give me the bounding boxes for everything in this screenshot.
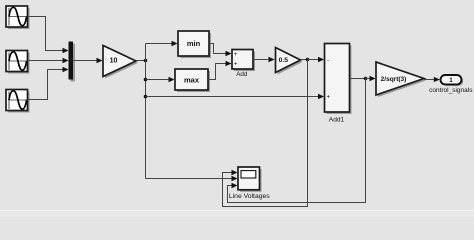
- svg-text:Add1: Add1: [329, 116, 345, 123]
- scope Line Voltages: [229, 167, 270, 200]
- wire to scope input 2: [146, 176, 238, 181]
- wire mux to gain 10: [73, 58, 103, 63]
- junction node gain 0.5 output: [306, 58, 310, 62]
- svg-text:+: +: [234, 62, 238, 68]
- adder Add1: [325, 44, 352, 124]
- svg-text:Line Voltages: Line Voltages: [229, 193, 270, 200]
- wire sine2 to mux: [28, 58, 69, 63]
- gain 0.5: [276, 48, 303, 75]
- wire feedback gain 0.5 to scope input 1: [223, 60, 308, 207]
- block min: [178, 31, 211, 58]
- junction node to Add1 plus: [144, 95, 148, 99]
- sine wave source 2: [6, 51, 30, 74]
- wire gain 2/sqrt(3) to outport: [424, 77, 440, 82]
- svg-text:10: 10: [110, 57, 118, 64]
- svg-text:2/sqrt(3): 2/sqrt(3): [381, 76, 407, 83]
- wire Add to gain 0.5: [253, 57, 275, 62]
- wire gain10 to junction: [136, 60, 146, 62]
- wire feedback Add1 to scope input 3: [228, 79, 366, 203]
- window bottom edge band: [0, 211, 474, 217]
- adder Add: [232, 50, 255, 79]
- svg-text:0.5: 0.5: [279, 57, 289, 64]
- block max: [175, 69, 210, 92]
- wire to min: [146, 41, 178, 46]
- wire junction to Add1 minus input: [308, 57, 325, 62]
- junction node gain10 output: [144, 59, 148, 63]
- outport 1 control_signals: [429, 75, 473, 94]
- svg-text:1: 1: [449, 77, 453, 84]
- sine wave source 3: [6, 90, 30, 113]
- svg-text:control_signals: control_signals: [429, 87, 473, 94]
- wire sine3 to mux: [28, 67, 69, 100]
- wire max to Add: [208, 61, 232, 80]
- svg-text:-: -: [327, 58, 329, 65]
- junction node to max: [144, 78, 148, 82]
- wire to max: [146, 77, 175, 82]
- sine wave source 1: [6, 6, 30, 29]
- wire gain 0.5 to junction: [301, 59, 308, 61]
- wire junction vertical bus: [145, 44, 147, 179]
- wire junction to gain 2/sqrt(3): [366, 76, 376, 81]
- wire Add1 to junction: [350, 78, 366, 80]
- svg-text:+: +: [234, 52, 238, 58]
- junction node Add1 output: [364, 77, 368, 81]
- gain 10: [103, 46, 138, 79]
- mux: [69, 42, 76, 82]
- svg-text:Add: Add: [236, 71, 248, 78]
- wire to Add1 plus input: [146, 94, 325, 99]
- svg-text:+: +: [327, 95, 331, 101]
- gain 2/sqrt(3): [376, 62, 426, 97]
- wire sine1 to mux: [28, 17, 69, 54]
- wire min to Add: [209, 44, 232, 57]
- svg-text:max: max: [184, 76, 200, 85]
- svg-text:min: min: [187, 39, 201, 48]
